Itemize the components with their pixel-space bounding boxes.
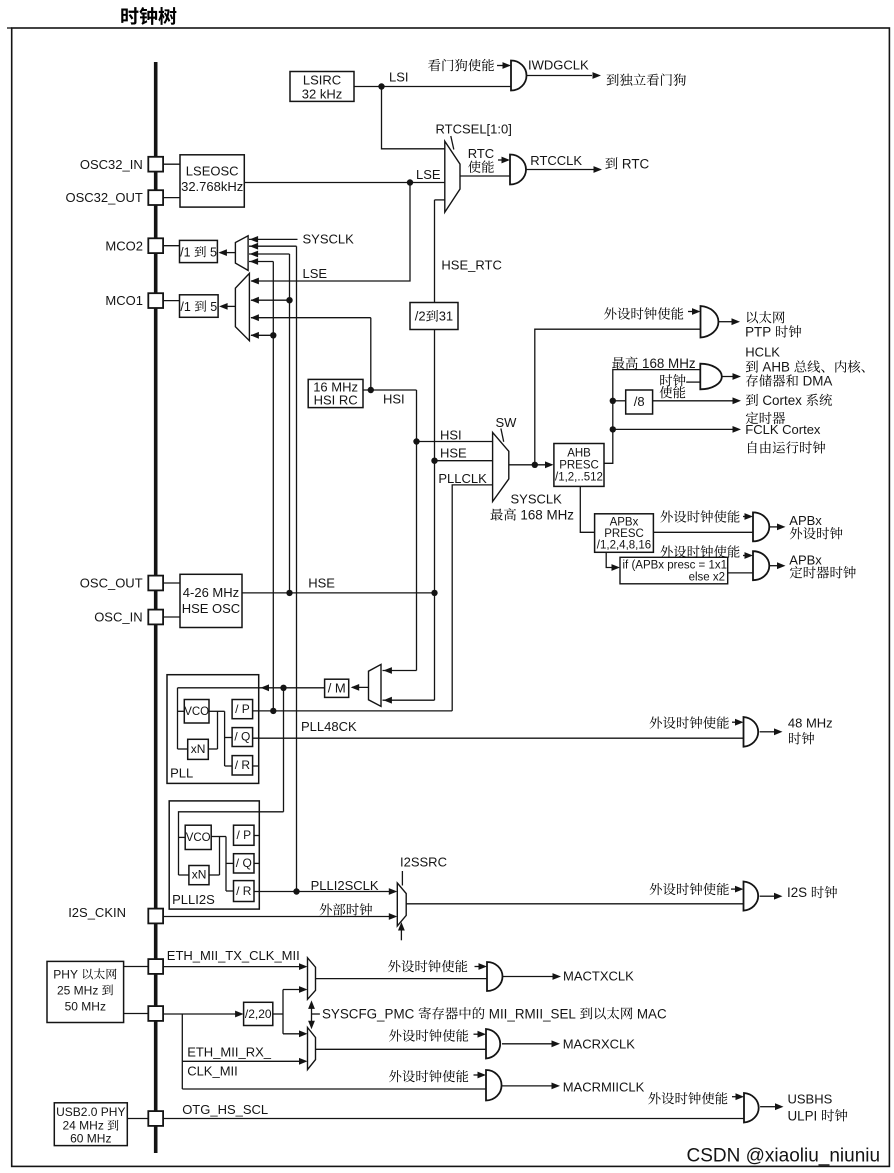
svg-text:I2S_CKIN: I2S_CKIN [68, 905, 126, 920]
junction HSI at HSI RC out [368, 387, 374, 393]
and-gate RTC [510, 155, 526, 185]
wire MCO2 in4 PLL net [249, 261, 273, 263]
pin OTG_HS [148, 1111, 163, 1126]
svg-text:HCLK: HCLK [745, 344, 780, 359]
wire USBHS gate out [760, 1106, 775, 1108]
wire AHB to APBx [580, 486, 594, 532]
wire AHB PRESC out up [604, 370, 700, 464]
svg-text:IWDGCLK: IWDGCLK [528, 58, 589, 73]
wire OSC_OUT pin [163, 582, 180, 584]
junction LSE [407, 179, 413, 185]
wire RX mux out [316, 1048, 487, 1050]
junction PLLI2S net at PLLI2SCLK row [293, 888, 299, 894]
wire HCLK enable stub [686, 381, 700, 383]
wire MACRMIICLK out [502, 1085, 552, 1087]
svg-text:USBHS: USBHS [788, 1091, 833, 1106]
prescaler APBx PRESC box [595, 514, 654, 553]
svg-text:4-26 MHz: 4-26 MHz [183, 585, 239, 600]
wire HSE to M mux [434, 593, 436, 700]
svg-text:APBx: APBx [610, 517, 639, 529]
and-gate PTP [701, 306, 719, 338]
svg-text:xN: xN [191, 742, 206, 756]
frame top line left stub [7, 27, 12, 29]
wire watchdog enable arrow [497, 65, 509, 67]
wire I2SSRC out [406, 903, 743, 905]
svg-text:5: 5 [210, 300, 217, 314]
svg-text:SYSCLK: SYSCLK [511, 491, 563, 506]
junction HSE SW branch [431, 458, 437, 464]
pin ETH_RX_CLK [148, 1006, 163, 1021]
wire PLL R stub [253, 765, 259, 767]
svg-text:PLLCLK: PLLCLK [438, 471, 487, 486]
wire OSC32_IN pin [163, 163, 180, 165]
wire SW mux out [509, 464, 552, 466]
wire HSI to M mux [416, 442, 418, 671]
svg-text:168 MHz: 168 MHz [642, 356, 696, 371]
junction HSE net MCO1 branch [286, 297, 292, 303]
svg-text:PLL48CK: PLL48CK [301, 719, 357, 734]
svg-text:VCO: VCO [186, 832, 211, 844]
wire APBx periph gate out [770, 526, 778, 528]
svg-text:OTG_HS_SCL: OTG_HS_SCL [182, 1102, 268, 1117]
mux ETH RX [308, 1028, 316, 1070]
mux MCO2 [235, 236, 248, 271]
label ethernet [747, 311, 785, 323]
svg-text:/1,2,4,8,16: /1,2,4,8,16 [597, 540, 651, 552]
PLLI2S block outline [169, 801, 259, 909]
oscillator LSIRC box [290, 72, 354, 102]
USB2.0 PHY box [54, 1103, 127, 1146]
svg-text:LSEOSC: LSEOSC [186, 164, 239, 179]
wire I2S gate out [760, 895, 774, 897]
oscillator HSI RC box [308, 379, 363, 407]
svg-text:OSC_OUT: OSC_OUT [80, 576, 143, 591]
PLLI2S divP box [234, 825, 255, 845]
junction HCLK div8 branch [610, 398, 616, 404]
svg-text:APBx: APBx [789, 513, 822, 528]
wire OTG_HS_SCL row [163, 1118, 744, 1120]
svg-text:MAC: MAC [637, 1006, 667, 1021]
and-gate MACRX [486, 1029, 500, 1059]
and-gate 48MHz [744, 717, 759, 747]
svg-text:/ Q: / Q [234, 730, 250, 744]
svg-text:PRESC: PRESC [559, 459, 599, 471]
svg-text:24 MHz: 24 MHz [63, 1119, 104, 1133]
PLL divQ box [232, 728, 253, 747]
prescaler AHB PRESC box [554, 444, 604, 487]
wire 48MHz enable arrow [732, 721, 742, 723]
oscillator HSE OSC box [180, 574, 242, 627]
PLLI2S VCO box [185, 825, 211, 849]
and-gate USBHS [744, 1093, 759, 1123]
bus line [154, 62, 158, 1153]
svg-text:AHB: AHB [567, 447, 591, 459]
PLL VCO box [184, 700, 209, 724]
wire PLL VCO loop [177, 688, 179, 749]
wire LSE drop to MCO1 [251, 183, 410, 282]
label ext clock [320, 903, 373, 915]
wire HSE row [242, 592, 435, 594]
svg-text:MII_RMII_SEL: MII_RMII_SEL [489, 1006, 576, 1021]
wire ETH TX row [163, 966, 305, 968]
svg-text:PTP: PTP [745, 325, 771, 340]
svg-text:LSE: LSE [303, 266, 328, 281]
mux M [369, 664, 382, 706]
svg-text:5: 5 [210, 245, 217, 259]
wire MCO2 pin [163, 245, 180, 247]
PLL divP box [232, 700, 253, 719]
wire LSI row [354, 86, 511, 88]
wire PLLCLK row [253, 710, 453, 712]
wire RMII drop [181, 1014, 183, 1089]
svg-text:32.768kHz: 32.768kHz [181, 179, 243, 194]
and-gate APBx timer [753, 551, 769, 580]
PLL block outline [167, 675, 259, 784]
PLL divR box [232, 756, 253, 775]
label memory and DMA [746, 374, 798, 386]
junction LSI [378, 83, 384, 89]
svg-text:RTC: RTC [468, 146, 494, 161]
svg-text:168 MHz: 168 MHz [520, 508, 574, 523]
wire div8 out [653, 400, 733, 402]
wire HSI RC out [363, 389, 417, 391]
label periph clk enable PTP [604, 307, 683, 319]
svg-text:ETH_MII_RX_: ETH_MII_RX_ [187, 1045, 272, 1060]
label periph clk enable MACRX [389, 1029, 468, 1041]
label periph clk enable 48 [650, 716, 729, 728]
svg-text:APBx: APBx [789, 553, 822, 568]
svg-text:MCO2: MCO2 [105, 238, 143, 253]
wire MCO1 mux out [221, 305, 235, 307]
pin OSC32_OUT [148, 190, 163, 205]
wire HSI to SW [417, 441, 493, 443]
label to Cortex system [746, 394, 758, 406]
svg-text:AHB: AHB [762, 360, 790, 375]
wire PLL VCO out rail [209, 710, 225, 712]
pin OSC32_IN [148, 157, 163, 172]
svg-text:CSDN @xiaoliu_niuniu: CSDN @xiaoliu_niuniu [687, 1146, 881, 1167]
wire M to PLLI2S [283, 688, 285, 812]
wire PLLI2SCLK row [254, 891, 395, 893]
wire FCLK out [613, 428, 733, 430]
svg-text:I2S: I2S [787, 885, 807, 900]
wire MACTXCLK out [503, 976, 553, 978]
label clock HCLK [660, 374, 685, 386]
svg-text:OSC32_IN: OSC32_IN [80, 157, 143, 172]
wire MACRXCLK out [502, 1043, 552, 1045]
svg-text:SW: SW [496, 415, 518, 430]
wire RTCCLK out [527, 169, 595, 171]
junction FCLK branch [610, 426, 616, 432]
svg-text:HSI: HSI [383, 391, 405, 406]
wire OSC_IN pin [163, 616, 180, 618]
label periph clk enable MACRMII [389, 1070, 468, 1082]
junction HSE at HSE_RTC vertical [431, 590, 437, 596]
wire to div8 [613, 400, 626, 402]
wire PTP out [718, 321, 732, 323]
svg-text:xN: xN [192, 868, 207, 882]
svg-text:MACTXCLK: MACTXCLK [563, 969, 634, 984]
wire APBx to if box [606, 552, 617, 567]
svg-text:MACRMIICLK: MACRMIICLK [563, 1080, 645, 1095]
svg-text:/2,20: /2,20 [245, 1007, 272, 1021]
label APBx periph clock [790, 527, 843, 539]
junction PLL net at PLLCLK row [270, 708, 276, 714]
svg-text:PHY: PHY [53, 967, 78, 981]
svg-text:PRESC: PRESC [604, 528, 644, 540]
wire PHY to pin1 [124, 966, 149, 968]
svg-text:I2SSRC: I2SSRC [400, 854, 447, 869]
wire APBx timer gate out [770, 565, 778, 567]
wire IWDGCLK out [527, 75, 593, 77]
label to AHB bus [746, 361, 758, 373]
wire RTCSEL mux out [460, 175, 510, 177]
junction HSI SW branch [413, 438, 419, 444]
mux ETH TX [308, 958, 316, 1000]
svg-text:32 kHz: 32 kHz [302, 86, 342, 101]
svg-text:PLLI2SCLK: PLLI2SCLK [311, 878, 379, 893]
wire MACRX enable arrow [474, 1033, 485, 1035]
svg-text:RTC: RTC [622, 156, 650, 171]
wire USB enable arrow [732, 1096, 742, 1098]
wire MCO2 SYSCLK stub [249, 238, 298, 240]
wire SW select tick [501, 429, 504, 442]
wire LSE row [244, 182, 444, 184]
wire APBx out to gate [653, 531, 753, 533]
label to RTC [605, 157, 617, 169]
wire APBx enable2 arrow [743, 555, 751, 557]
svg-text:/1: /1 [180, 300, 190, 314]
label watchdog enable [428, 59, 494, 71]
wire APBx enable1 arrow [743, 516, 751, 518]
svg-text:ULPI: ULPI [788, 1108, 818, 1123]
svg-text:RTCSEL[1:0]: RTCSEL[1:0] [436, 122, 512, 137]
pin MCO2 [148, 238, 163, 253]
wire PTP enable arrow [688, 311, 699, 313]
svg-text:HSE: HSE [308, 576, 335, 591]
svg-text:LSIRC: LSIRC [303, 73, 341, 88]
wire MII_RMII_SEL select [311, 1003, 313, 1027]
junction PLL net MCO1 branch [270, 332, 276, 338]
svg-text:HSI RC: HSI RC [314, 393, 358, 408]
label periph clk enable MACTX [388, 960, 467, 972]
wire ETH RX pin row [163, 1013, 241, 1015]
wire M mux out [352, 686, 369, 688]
label max 168MHz hclk [612, 357, 638, 369]
wire PLL48CK row [253, 737, 744, 739]
pin OSC_OUT [148, 576, 163, 591]
svg-text:HSE OSC: HSE OSC [182, 601, 241, 616]
svg-text:/ M: / M [328, 681, 346, 696]
svg-text:60 MHz: 60 MHz [70, 1132, 111, 1146]
wire RTC enable arrow [498, 159, 508, 161]
junction M out to PLLI2S [280, 685, 286, 691]
svg-text:FCLK Cortex: FCLK Cortex [745, 422, 821, 437]
wire HSE to SW [435, 460, 493, 462]
wire OSC32_OUT pin [163, 197, 180, 199]
pin I2S_CKIN [148, 909, 163, 924]
label max 168MHz out [490, 508, 516, 520]
svg-text:SYSCFG_PMC: SYSCFG_PMC [322, 1006, 415, 1021]
label APBx timer clock [790, 566, 856, 578]
svg-text:48 MHz: 48 MHz [788, 716, 833, 731]
wire MCO2 mux out [220, 252, 235, 254]
and-gate I2S [744, 882, 759, 911]
svg-text:DMA: DMA [803, 374, 833, 389]
svg-text:25 MHz: 25 MHz [57, 983, 98, 997]
divider /8 box [626, 390, 653, 414]
svg-text:31: 31 [439, 309, 453, 324]
wire LSI to RTCSEL mux [382, 87, 445, 149]
wire PLLI2S Q stub [254, 862, 259, 864]
and-gate HCLK [700, 364, 722, 390]
and-gate IWDG [511, 61, 526, 91]
wire USBPHY to pin [127, 1118, 148, 1120]
mux I2SSRC [397, 883, 406, 926]
wire 48MHz gate out [760, 731, 774, 733]
svg-text:MCO1: MCO1 [105, 293, 143, 308]
and-gate MACTX [487, 962, 502, 991]
PLLI2S xN box [189, 866, 209, 885]
svg-text:OSC_IN: OSC_IN [94, 610, 142, 625]
label periph clk enable USB [648, 1092, 727, 1104]
svg-text:SYSCLK: SYSCLK [303, 231, 355, 246]
label periph clk enable I2S [650, 883, 729, 895]
svg-text:LSI: LSI [389, 70, 409, 85]
svg-text:50 MHz: 50 MHz [65, 999, 106, 1013]
label periph clk enable APB2 [660, 545, 739, 557]
PLL xN box [188, 739, 209, 759]
svg-text:/1: /1 [180, 245, 190, 259]
svg-text:LSE: LSE [416, 167, 441, 182]
wire MCO2 in2 PLLI2S net [249, 245, 297, 247]
label enable HCLK [660, 386, 686, 398]
wire MCO2 in3 HSE net [249, 253, 290, 255]
wire HCLK gate out [713, 376, 732, 378]
svg-text:/ P: / P [237, 828, 252, 842]
svg-text:CLK_MII: CLK_MII [187, 1064, 238, 1079]
svg-text:/1,2,..512: /1,2,..512 [555, 472, 603, 484]
svg-text:/ Q: / Q [236, 856, 252, 870]
oscillator LSEOSC box [180, 155, 244, 207]
wire MCO1 pin [163, 300, 180, 302]
svg-text:/8: /8 [634, 394, 645, 409]
svg-text:VCO: VCO [184, 706, 209, 718]
wire MCO1 in4 branch [251, 334, 273, 336]
PLLI2S divR box [234, 881, 255, 902]
svg-text:ETH_MII_TX_CLK_MII: ETH_MII_TX_CLK_MII [167, 948, 300, 963]
svg-text:Cortex: Cortex [762, 393, 802, 408]
svg-text:HSE_RTC: HSE_RTC [441, 258, 501, 273]
label clock 48 [789, 732, 814, 744]
PHY ethernet box [47, 961, 124, 1022]
label to independent watchdog [607, 73, 686, 85]
svg-text:else x2: else x2 [689, 572, 725, 584]
pin ETH_TX_CLK [148, 959, 163, 974]
wire MCO1 in3 HSI branch [251, 317, 371, 319]
mux SW [493, 432, 509, 501]
wire div2_20 out U [273, 1013, 283, 1015]
wire PLL xN out [208, 748, 217, 750]
conditional x2 box [620, 557, 728, 584]
pin MCO1 [148, 293, 163, 308]
wire PLLI2S VCO out rail [211, 836, 226, 838]
wire PLLI2S P stub [254, 835, 259, 837]
svg-text:RTCCLK: RTCCLK [530, 153, 582, 168]
svg-text:/ R: / R [236, 884, 252, 898]
wire PLLCLK to SW [452, 485, 492, 711]
svg-text:USB2.0 PHY: USB2.0 PHY [56, 1105, 125, 1119]
wire if box out [728, 572, 753, 574]
wire TX mux out [316, 978, 488, 980]
svg-text:HSE: HSE [440, 446, 467, 461]
svg-text:OSC32_OUT: OSC32_OUT [66, 190, 143, 205]
pin OSC_IN [148, 610, 163, 625]
and-gate MACRMII [486, 1070, 502, 1101]
divider /1to5 MCO1 box [180, 295, 219, 318]
svg-text:/ R: / R [235, 758, 251, 772]
label free running clock [748, 441, 825, 453]
wire MACTX enable arrow [475, 966, 486, 968]
wire RX clk branch [182, 1060, 305, 1062]
divider /2,20 box [244, 1002, 273, 1025]
divider /1to5 MCO2 box [180, 240, 218, 262]
junction HSE net at HSE row [286, 590, 292, 596]
label periph clk enable APB1 [660, 510, 739, 522]
wire ext clock row [163, 916, 395, 918]
label timer [746, 412, 785, 424]
wire I2SSRC select bottom arrow [400, 929, 402, 940]
svg-text:HSI: HSI [440, 428, 462, 443]
svg-text:MACRXCLK: MACRXCLK [563, 1037, 636, 1052]
wire MCO1 in2 branch [251, 299, 290, 301]
wire I2SSRC select top [401, 871, 403, 886]
PLLI2S divQ box [234, 854, 255, 873]
mux RTCSEL [445, 141, 460, 212]
svg-text:PLLI2S: PLLI2S [172, 892, 215, 907]
divider /M box [325, 679, 349, 697]
svg-text:/ P: / P [235, 702, 250, 716]
wire PHY to pin2 [124, 1013, 149, 1015]
svg-text:PLL: PLL [170, 766, 193, 781]
wire RTCSEL select tick [451, 136, 454, 150]
wire PLLI2S xN out [209, 874, 220, 876]
and-gate APBx periph [753, 512, 769, 541]
wire MACRMII enable arrow [474, 1074, 485, 1076]
wire HSI down [416, 390, 418, 442]
junction SYSCLK [532, 462, 538, 468]
wire M box to PLL [178, 687, 325, 689]
wire I2S enable arrow [731, 888, 742, 890]
divider /2to31 box [410, 303, 458, 330]
title 时钟树 [121, 7, 176, 25]
wire HSE_RTC to RTCSEL [435, 199, 445, 201]
mux MCO1 [235, 273, 249, 340]
wire SYSCLK up to PTP [535, 329, 701, 465]
svg-text:if (APBx presc = 1x1: if (APBx presc = 1x1 [623, 560, 728, 572]
svg-text:/2: /2 [415, 309, 426, 324]
